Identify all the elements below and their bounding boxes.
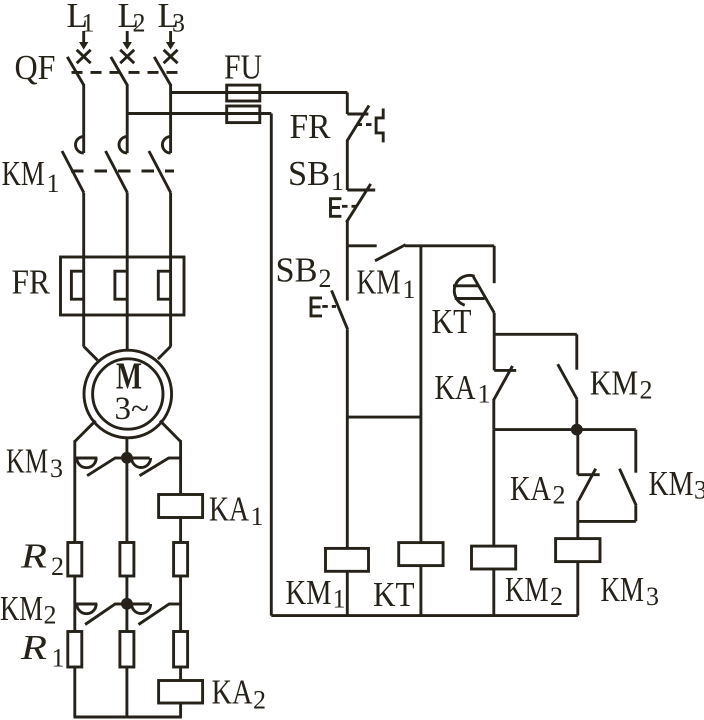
thermal contact FR element [376, 109, 383, 143]
svg-text:KA: KA [435, 368, 477, 407]
contactor KM2 aux blade [558, 364, 577, 399]
wire KA1 to R2 [179, 518, 182, 543]
coil KM2 [472, 546, 516, 569]
contactor KM3 shorting label [6, 442, 63, 483]
thermal relay FR heater 1 [71, 271, 83, 299]
svg-text:KM: KM [357, 263, 401, 302]
wire KT contact down [493, 313, 496, 371]
contactor KM2 contact 1 [75, 604, 127, 625]
resistor R1 label [20, 628, 65, 673]
wire phase C into motor [158, 346, 171, 359]
node junction dot KM3 row [121, 452, 133, 464]
relay KA2 label [212, 673, 267, 715]
breaker QF linkage dashed line [72, 71, 178, 74]
svg-text:2: 2 [44, 601, 57, 630]
wire phase A through FR [82, 257, 85, 347]
wire SB2 upper lead [346, 246, 349, 301]
coil KM1 [326, 548, 369, 571]
contactor KM1 main pole 3 [149, 137, 171, 193]
wire phase B upper [126, 84, 129, 153]
svg-text:KM: KM [2, 154, 45, 193]
contactor KM2 aux lead [575, 334, 578, 369]
svg-text:2: 2 [51, 552, 64, 581]
motor M circles [84, 350, 172, 438]
wire phase C mid [169, 193, 172, 258]
thermal relay FR label [12, 262, 51, 301]
timer contact KT lead [493, 246, 496, 283]
svg-text:SB: SB [288, 154, 330, 193]
relay coil KA1 [159, 495, 203, 518]
svg-text:2: 2 [319, 264, 332, 293]
svg-text:1: 1 [478, 380, 491, 409]
coil KM1 label [286, 573, 346, 614]
svg-text:KM: KM [0, 589, 43, 628]
svg-text:2: 2 [553, 481, 566, 510]
thermal contact FR label [290, 107, 332, 146]
svg-text:KM: KM [601, 570, 645, 609]
contactor KM1 aux contact blade [375, 245, 406, 261]
resistor R2 element 3 [174, 543, 188, 577]
wire bottom rail [74, 716, 182, 719]
wire phase B mid [126, 193, 129, 258]
wire phase A mid [82, 193, 85, 258]
wire motor to phase C lower [160, 421, 181, 458]
coil KM3 label [601, 570, 660, 611]
relay contact KA1 blade [493, 366, 512, 400]
coil KT [399, 543, 443, 566]
pushbutton SB1 label [288, 154, 344, 196]
pushbutton SB2 actuator E [311, 298, 322, 316]
wire KA2 contact down [576, 501, 579, 539]
pushbutton SB2 blade [332, 290, 348, 329]
node junction dot KM2 row [121, 598, 133, 610]
wire R2 to KM2 row b [125, 576, 128, 632]
pushbutton SB1 actuator E [331, 199, 342, 217]
relay contact KA1 seat tick [494, 369, 516, 372]
svg-text:KA: KA [212, 673, 254, 712]
thermal contact FR seat tick [347, 113, 368, 116]
pushbutton SB2 label [276, 251, 332, 294]
svg-text:2: 2 [640, 376, 653, 405]
relay contact KA2 blade [579, 469, 596, 501]
coil KM3 [556, 539, 600, 562]
wire motor to phase A lower [75, 421, 96, 458]
svg-text:1: 1 [403, 275, 416, 304]
relay coil KA2 [159, 681, 203, 704]
svg-text:KA: KA [510, 469, 552, 508]
wire phase B R2 feed [125, 458, 128, 543]
svg-text:3: 3 [694, 476, 704, 505]
svg-text:KM: KM [649, 464, 694, 503]
contactor KM3 aux blade [620, 469, 637, 506]
breaker QF pole 2 cross [120, 50, 134, 63]
wire control bottom rail [271, 614, 578, 617]
svg-text:KM: KM [286, 573, 332, 612]
resistor R1 element 1 [68, 632, 82, 668]
wire L2 arrow [123, 31, 132, 50]
contactor KM1 main label [2, 154, 60, 198]
relay KA1 label [209, 490, 264, 531]
resistor R2 element 2 [120, 543, 134, 577]
pushbutton SB2 dashed link [322, 305, 336, 308]
wire SB1 to node [346, 222, 349, 246]
coil KM2 label [505, 570, 563, 611]
wire parallel bottom connector [494, 428, 636, 431]
contactor KM1 aux label [357, 263, 416, 305]
svg-text:KT: KT [373, 575, 415, 614]
thermal relay FR heater 3 [158, 271, 170, 299]
node L3 label [158, 0, 186, 37]
svg-text:FU: FU [224, 48, 262, 87]
svg-text:QF: QF [15, 48, 56, 87]
wire KT to KM2 branch connector [494, 333, 577, 336]
relay contact KA2 seat tick [578, 473, 600, 476]
wire R1 to KA2 [179, 667, 182, 681]
svg-text:KT: KT [432, 302, 472, 341]
wire KM3 parallel connector [578, 520, 636, 523]
wire KA2 to bottom rail [179, 703, 182, 717]
wire FR contact to SB1 [346, 140, 349, 191]
wire motor to phase B lower [125, 438, 128, 458]
thermal relay FR box [61, 257, 185, 315]
wire latch rung left [347, 244, 376, 247]
breaker QF pole 2 blade [111, 57, 127, 85]
relay contact KA1 label [435, 368, 491, 409]
wire top fuse to FR contact [346, 93, 349, 115]
svg-text:2: 2 [550, 582, 563, 611]
contactor KM2 contact 2 [127, 604, 181, 625]
wire KM3 branch top [634, 430, 637, 473]
motor 3~ label [115, 391, 149, 427]
timer contact KT blade [473, 277, 494, 313]
svg-text:1: 1 [47, 169, 60, 198]
wire L1 arrow [79, 31, 88, 50]
node L1 label [67, 0, 95, 37]
contactor KM2 aux label [590, 364, 653, 405]
wire KT coil to rail [419, 566, 422, 616]
thermal relay FR heater 2 [115, 271, 127, 299]
wire L2 to fuse FU [127, 112, 271, 115]
wire R2 to KM2 row c [179, 576, 182, 632]
contactor KM2 shorting label [0, 589, 57, 630]
svg-text:3: 3 [646, 582, 659, 611]
wire phase C upper [169, 84, 172, 153]
svg-text:1: 1 [331, 167, 344, 196]
wire KT branch drop [419, 246, 422, 543]
contactor KM1 main pole 2 [106, 137, 128, 193]
contactor KM1 main pole 1 [62, 137, 84, 193]
wire latch cross connector [347, 416, 421, 419]
resistor R1 element 2 [120, 632, 134, 668]
contactor KM1 linkage dashed line [71, 170, 174, 173]
node junction dot right [571, 424, 583, 436]
fuse FU label [224, 48, 262, 87]
svg-text:KM: KM [505, 570, 549, 609]
wire phase C through FR [169, 257, 172, 347]
wire phase B through FR [126, 257, 129, 351]
wire KM1 coil to rail [346, 571, 349, 615]
svg-text:FR: FR [12, 262, 51, 301]
resistor R2 label [20, 537, 64, 582]
wire KM3 branch bottom [634, 506, 637, 522]
relay contact KA2 label [510, 469, 566, 510]
wire control left rail [270, 114, 273, 616]
timer contact KT label [432, 302, 472, 341]
svg-text:R: R [20, 537, 47, 576]
thermal contact FR blade [347, 106, 369, 141]
svg-text:KM: KM [6, 442, 48, 481]
svg-text:1: 1 [52, 644, 65, 673]
wire KA1 contact down [492, 400, 495, 430]
thermal contact FR dashed link [357, 123, 377, 126]
motor M label [116, 355, 142, 397]
wire phase C KA1 feed [179, 458, 182, 495]
contactor KM3 aux label [649, 464, 704, 505]
wire phase A upper [82, 84, 85, 153]
wire R2 to KM2 row a [73, 576, 76, 632]
svg-text:KA: KA [209, 490, 250, 529]
breaker QF pole 1 blade [67, 57, 83, 85]
svg-text:R: R [20, 628, 47, 667]
fuse FU upper [227, 85, 260, 101]
svg-text:3~: 3~ [115, 391, 149, 427]
pushbutton SB1 blade [346, 184, 370, 222]
resistor R2 element 1 [68, 543, 82, 577]
svg-text:KM: KM [590, 364, 638, 403]
breaker QF pole 1 cross [77, 50, 91, 63]
svg-text:3: 3 [172, 8, 185, 37]
wire latch rung right [405, 244, 494, 247]
pushbutton SB1 dashed link [342, 205, 356, 208]
node L2 label [118, 0, 146, 37]
wire phase A into motor [84, 346, 98, 360]
wire L3 to fuse FU [171, 91, 348, 94]
wire KM2 coil to rail [492, 569, 495, 616]
fuse FU lower [227, 106, 260, 123]
wire KM2 coil feed [492, 430, 495, 546]
timer contact KT cup [453, 275, 485, 305]
wire R1 to bottom rail a [73, 667, 76, 717]
coil KT label [373, 575, 415, 614]
svg-text:SB: SB [276, 251, 318, 290]
wire R1 to bottom rail b [125, 667, 128, 717]
svg-text:3: 3 [50, 454, 63, 483]
wire KM2 contact down [575, 399, 578, 429]
contactor KM3 contact 1 [75, 458, 127, 476]
svg-text:2: 2 [253, 686, 266, 715]
breaker QF pole 3 cross [164, 50, 178, 63]
breaker QF label [15, 48, 56, 87]
svg-text:FR: FR [290, 107, 332, 146]
svg-text:1: 1 [251, 502, 264, 531]
wire phase A R2 feed [73, 458, 76, 543]
breaker QF pole 3 blade [154, 57, 170, 85]
wire KM3 coil to rail [576, 562, 579, 616]
wire L3 arrow [166, 31, 175, 50]
wire SB2 to KM1 coil [346, 330, 349, 549]
svg-text:1: 1 [333, 585, 346, 614]
relay contact KA2 lead [576, 430, 579, 475]
pushbutton SB1 seat tick [347, 189, 375, 192]
svg-text:2: 2 [133, 8, 146, 37]
contactor KM3 contact 2 [127, 458, 181, 476]
resistor R1 element 3 [174, 632, 188, 668]
